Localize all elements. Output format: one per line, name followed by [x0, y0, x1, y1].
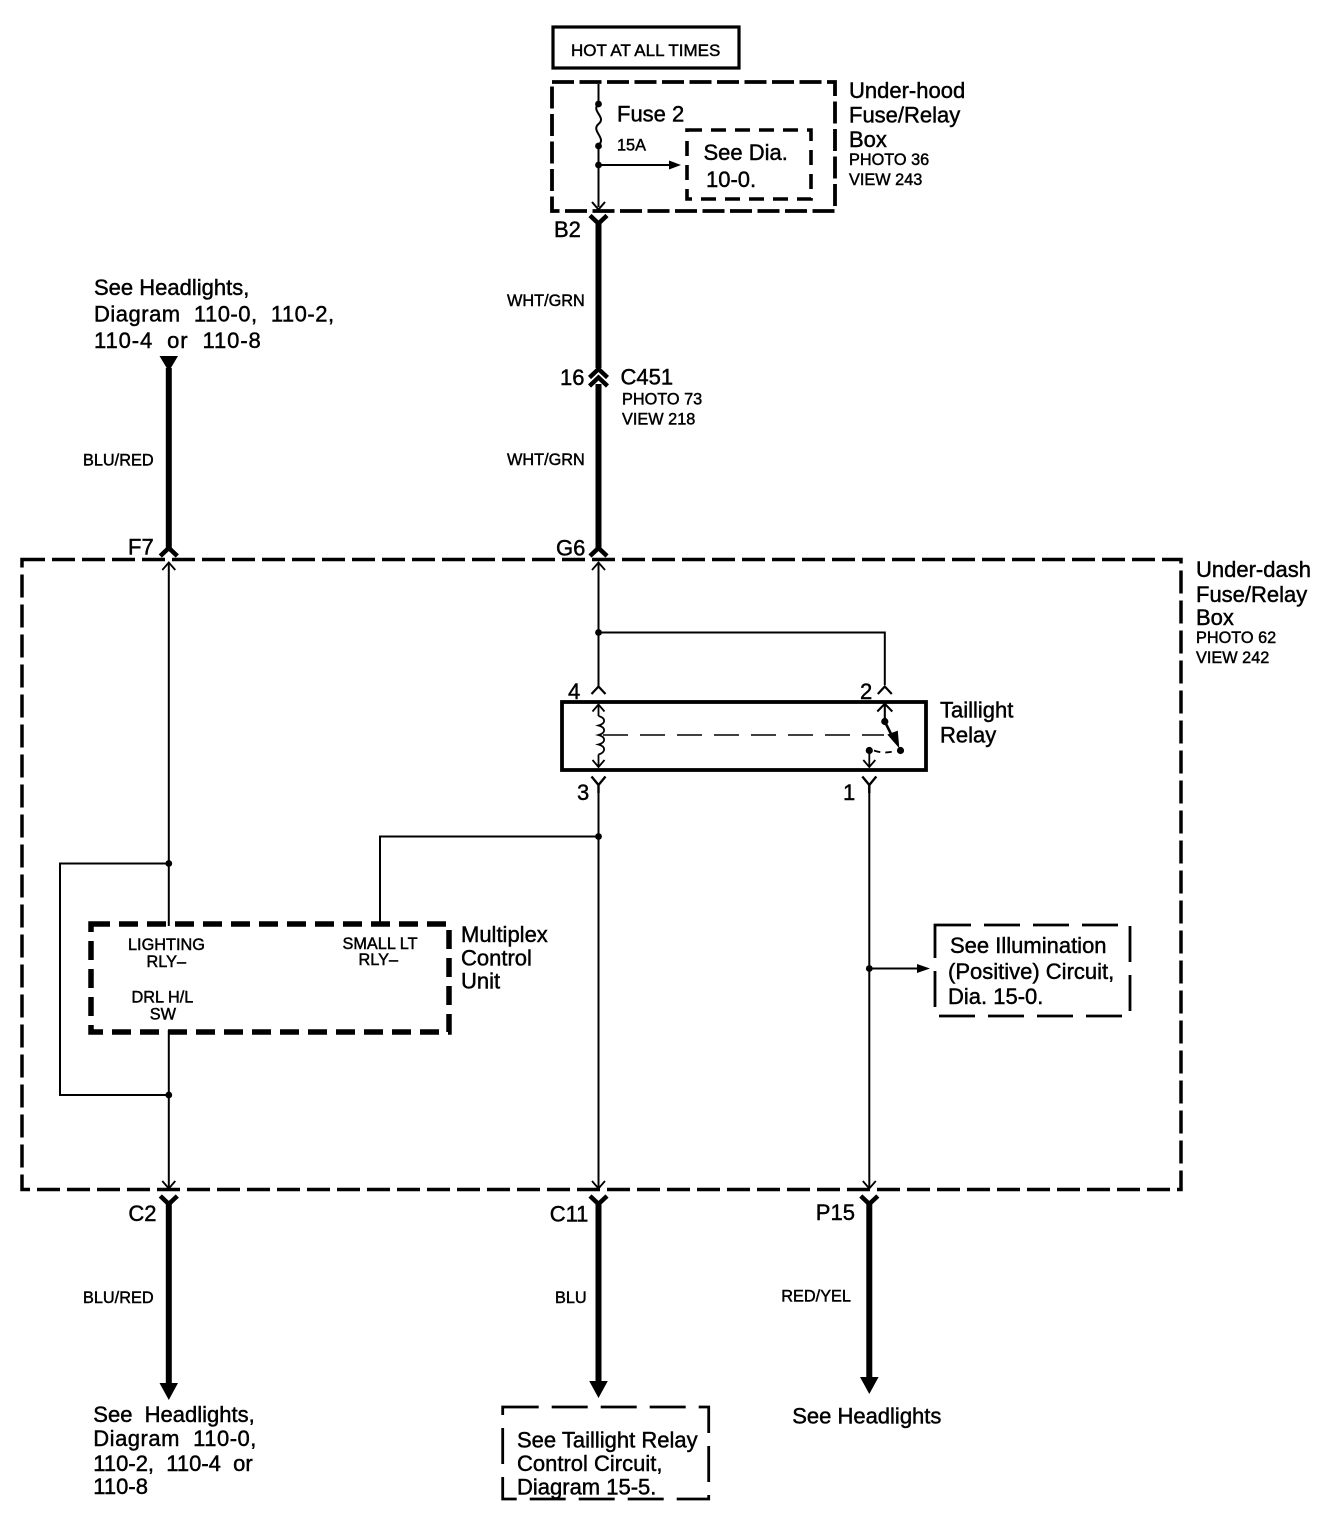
svg-text:VIEW 218: VIEW 218: [622, 411, 695, 429]
label Taillight Relay: [940, 698, 1013, 748]
label DRL H/L SW: [132, 989, 194, 1024]
svg-text:C11: C11: [550, 1202, 589, 1227]
wire P15 exit RED/YEL: [866, 1202, 872, 1379]
label Under-dash Fuse/Relay Box: [1196, 557, 1311, 667]
svg-text:Taillight: Taillight: [940, 698, 1013, 723]
label SMALL LT RLY: [343, 935, 418, 969]
node junction dot below fuse: [595, 143, 602, 150]
svg-text:G6: G6: [556, 536, 585, 561]
connector P15 chevron: [861, 1196, 878, 1204]
relay coil arrow down inside: [593, 760, 605, 767]
node See Illumination reference box: [935, 925, 1130, 1016]
left branch: see headlights text top: [94, 275, 335, 353]
svg-text:Under-dash: Under-dash: [1196, 557, 1311, 582]
svg-text:See Headlights,: See Headlights,: [93, 1402, 254, 1427]
svg-text:Diagram 15-5.: Diagram 15-5.: [517, 1475, 656, 1500]
wire from box top to fuse: [598, 84, 600, 104]
svg-text:C451: C451: [621, 365, 674, 390]
wire MCU bottom to C2: [168, 1030, 170, 1188]
connector C11 chevron: [590, 1196, 607, 1204]
svg-text:BLU/RED: BLU/RED: [83, 1289, 154, 1307]
svg-text:Fuse/Relay: Fuse/Relay: [849, 103, 960, 128]
fuse F2 squiggle symbol: [596, 104, 601, 145]
svg-text:Diagram 110-0,: Diagram 110-0,: [93, 1426, 257, 1451]
wire C11 exit BLU: [596, 1202, 602, 1383]
svg-text:See Taillight Relay: See Taillight Relay: [517, 1428, 698, 1453]
relay switch dashed throw: [874, 751, 896, 753]
svg-text:WHT/GRN: WHT/GRN: [507, 451, 585, 469]
relay switch contact dot pin2: [881, 718, 888, 725]
relay coil wire bottom: [598, 755, 600, 767]
relay switch contact dot end: [897, 747, 904, 754]
wire fuse to box bottom: [598, 146, 600, 207]
svg-text:16: 16: [560, 365, 584, 390]
svg-text:Unit: Unit: [461, 969, 500, 994]
svg-text:Box: Box: [1196, 605, 1234, 630]
under-hood fuse/relay box (dashed): [552, 82, 835, 211]
svg-text:F7: F7: [128, 535, 154, 560]
pin arrow C11 inside box bottom: [592, 1181, 605, 1189]
svg-text:RLY–: RLY–: [147, 953, 187, 971]
pin arrow at under-hood box exit: [592, 202, 605, 210]
wire arrow to illumination box: [869, 968, 918, 970]
svg-text:Multiplex: Multiplex: [461, 922, 548, 947]
svg-text:See Headlights,: See Headlights,: [94, 275, 249, 300]
wire F7 down to MCU: [168, 563, 170, 927]
svg-text:RED/YEL: RED/YEL: [781, 1288, 851, 1306]
connector G6 chevron: [590, 548, 607, 556]
relay coil wire top: [598, 705, 600, 717]
under-dash fuse/relay box (dashed): [22, 560, 1181, 1190]
relay switch arm pin2 arrow: [877, 704, 892, 720]
relay coil arrow up inside: [593, 705, 605, 712]
pin arrow C2 inside box bottom: [162, 1181, 175, 1189]
svg-text:LIGHTING: LIGHTING: [128, 936, 205, 954]
svg-text:Box: Box: [849, 127, 887, 152]
node branch junction dot: [595, 162, 602, 169]
wire C2 exit BLU/RED: [166, 1202, 172, 1385]
wire small lt branch to MCU: [380, 837, 599, 927]
wire C451 to G6 (WHT/GRN): [596, 384, 602, 549]
multiplex control unit box (dashed): [91, 924, 449, 1032]
wire BLU/RED down to F7: [166, 368, 172, 549]
node junction to relay pin 2: [595, 629, 602, 636]
svg-text:B2: B2: [554, 217, 581, 242]
relay pin 2 chevron: [878, 687, 892, 695]
taillight relay box: [562, 702, 926, 770]
relay switch contact dot pin1: [866, 747, 873, 754]
svg-text:DRL H/L: DRL H/L: [132, 989, 194, 1007]
connector C451 double chevron pin 16: [590, 369, 608, 386]
svg-text:See Dia.: See Dia.: [704, 140, 788, 165]
wire junction to relay pin 2: [599, 633, 885, 686]
pin arrow G6 inside box: [592, 563, 605, 571]
node See Taillight Relay reference box: [503, 1407, 709, 1500]
svg-text:110-4 or 110-8: 110-4 or 110-8: [94, 328, 262, 353]
svg-text:Relay: Relay: [940, 723, 996, 748]
node HOT AT ALL TIMES box: [553, 27, 739, 68]
svg-text:Fuse/Relay: Fuse/Relay: [1196, 582, 1307, 607]
svg-text:110-8: 110-8: [93, 1474, 148, 1499]
relay coil winding: [599, 716, 605, 755]
svg-text:Fuse 2: Fuse 2: [617, 102, 684, 127]
svg-text:1: 1: [843, 780, 855, 805]
svg-text:BLU/RED: BLU/RED: [83, 452, 154, 470]
label Multiplex Control Unit: [461, 922, 548, 994]
svg-text:HOT AT ALL TIMES: HOT AT ALL TIMES: [571, 41, 720, 60]
svg-text:PHOTO 73: PHOTO 73: [622, 391, 702, 409]
svg-text:Diagram 110-0, 110-2,: Diagram 110-0, 110-2,: [94, 302, 335, 327]
relay pin 3 chevron: [592, 777, 606, 794]
node junction small lt: [595, 833, 602, 840]
label C451 PHOTO 73 VIEW 218: [621, 365, 703, 429]
label LIGHTING RLY: [128, 936, 205, 971]
svg-text:RLY–: RLY–: [359, 951, 399, 969]
node See Dia. 10-0. reference box: [687, 130, 811, 199]
svg-text:BLU: BLU: [555, 1289, 587, 1307]
connector B2 chevron: [590, 216, 607, 224]
svg-text:2: 2: [860, 679, 872, 704]
svg-text:Under-hood: Under-hood: [849, 78, 965, 103]
wire B2 to C451 (WHT/GRN): [596, 222, 602, 368]
connector F7 chevron: [160, 548, 177, 556]
wire relay pin 3 down to C11: [598, 785, 600, 1188]
svg-text:PHOTO 62: PHOTO 62: [1196, 629, 1276, 647]
relay internal dashed link: [603, 734, 884, 736]
svg-text:110-2, 110-4 or: 110-2, 110-4 or: [93, 1451, 252, 1476]
wire branch to See Dia arrow: [599, 164, 671, 166]
wire relay pin 1 down to P15: [868, 785, 870, 1188]
relay pin1 stem and arrow down inside: [863, 751, 875, 768]
svg-text:Control Circuit,: Control Circuit,: [517, 1451, 662, 1476]
svg-text:VIEW 243: VIEW 243: [849, 171, 922, 189]
relay switch blade: [885, 722, 895, 742]
svg-text:Control: Control: [461, 946, 532, 971]
relay pin 4 chevron: [592, 687, 606, 695]
svg-text:15A: 15A: [617, 137, 646, 155]
arrowhead from headlights diagram: [160, 356, 179, 372]
svg-text:P15: P15: [816, 1200, 855, 1225]
relay pin 1 chevron: [862, 777, 876, 794]
svg-text:3: 3: [577, 780, 589, 805]
svg-text:4: 4: [568, 679, 580, 704]
label Under-hood Fuse/Relay Box: [849, 78, 965, 189]
wire G6 down to relay pin 4: [598, 563, 600, 687]
pin arrow F7 inside box: [162, 563, 175, 571]
svg-text:10-0.: 10-0.: [706, 167, 756, 192]
svg-text:(Positive) Circuit,: (Positive) Circuit,: [948, 959, 1114, 984]
node junction dot left loop top: [165, 860, 172, 867]
svg-text:Dia. 15-0.: Dia. 15-0.: [948, 984, 1043, 1009]
svg-text:SW: SW: [150, 1006, 177, 1024]
wire left feedback loop: [60, 864, 169, 1096]
svg-text:WHT/GRN: WHT/GRN: [507, 292, 585, 310]
svg-text:VIEW 242: VIEW 242: [1196, 649, 1269, 667]
pin arrow P15 inside box bottom: [863, 1181, 876, 1189]
connector C2 chevron: [160, 1196, 177, 1204]
fuse F2 value labels: [617, 102, 684, 155]
svg-text:See Illumination: See Illumination: [950, 933, 1107, 958]
node junction dot left loop bottom: [165, 1092, 172, 1099]
node junction dot above fuse: [595, 101, 602, 108]
label see headlights bottom left: [93, 1402, 257, 1499]
svg-text:C2: C2: [128, 1201, 156, 1226]
svg-text:See Headlights: See Headlights: [792, 1404, 941, 1429]
svg-text:PHOTO 36: PHOTO 36: [849, 151, 929, 169]
node junction illumination: [866, 965, 873, 972]
